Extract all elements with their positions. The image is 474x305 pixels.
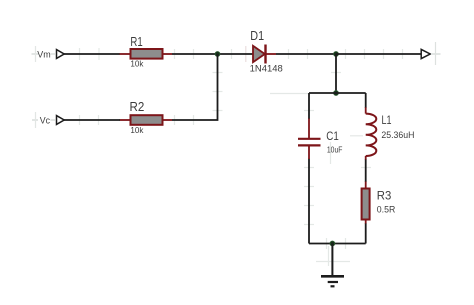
svg-text:R3: R3	[377, 189, 392, 203]
svg-text:10k: 10k	[130, 125, 144, 135]
junction node B	[334, 52, 339, 57]
wire node B down to node C	[335, 54, 337, 93]
svg-text:10uF: 10uF	[327, 145, 343, 155]
inductor L1	[366, 107, 415, 160]
terminal Vc	[32, 112, 64, 128]
svg-text:R2: R2	[130, 99, 145, 114]
svg-text:25.36uH: 25.36uH	[381, 130, 414, 140]
svg-text:1N4148: 1N4148	[250, 64, 283, 75]
diode D1	[250, 28, 283, 74]
wire L1 to R3	[365, 160, 367, 183]
svg-text:R1: R1	[130, 34, 142, 49]
svg-text:C1: C1	[326, 129, 339, 143]
junction node A	[215, 52, 220, 57]
wire left branch down (C1 branch)	[308, 93, 310, 119]
terminal Vm	[32, 46, 65, 62]
resistor R3	[362, 182, 396, 225]
wire node A down to R2 row	[172, 54, 218, 120]
wire R3 to bottom rail	[365, 224, 367, 244]
wire bottom rail	[309, 243, 366, 245]
wire R2 to Vc terminal	[64, 119, 120, 121]
junction node C	[334, 91, 339, 96]
svg-text:Vc: Vc	[40, 115, 51, 126]
resistor R2	[120, 99, 173, 135]
wire top of tank: left and right	[309, 92, 366, 94]
grid tick marks (faint)	[80, 46, 403, 266]
resistor R1	[120, 34, 173, 69]
wire right branch down to L1	[365, 93, 367, 108]
capacitor C1	[298, 119, 342, 160]
wire D1 to node B	[276, 53, 336, 55]
svg-text:10k: 10k	[130, 58, 144, 68]
wire Vm to R1	[64, 53, 120, 55]
wire node B to output terminal	[336, 53, 421, 55]
svg-text:D1: D1	[250, 28, 264, 43]
junction node D (ground node)	[330, 241, 335, 246]
ground	[321, 244, 344, 287]
svg-text:Vm: Vm	[37, 50, 50, 61]
terminal output	[421, 42, 440, 65]
svg-text:0.5R: 0.5R	[377, 204, 396, 214]
svg-text:L1: L1	[382, 113, 392, 127]
wire R1 to node A	[172, 53, 253, 55]
